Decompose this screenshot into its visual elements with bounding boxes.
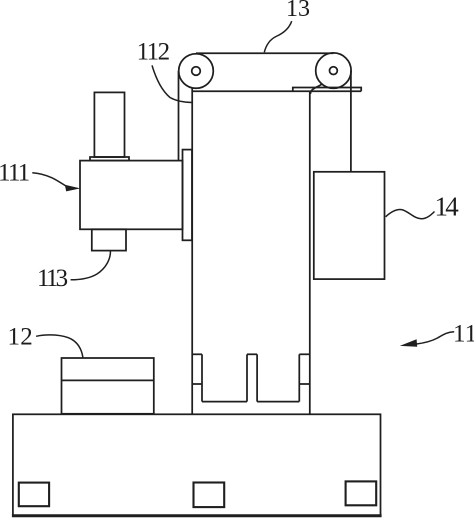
belt left strap [178,71,180,160]
svg-text:111: 111 [0,160,29,187]
leader 11 [417,332,455,344]
column left edge [191,88,193,414]
column right edge [309,91,311,414]
leader 14 [386,210,435,219]
slot bottom right segment [257,401,299,403]
left slot inner wall [201,354,203,401]
center prong right wall [256,354,258,401]
leader 113 [71,251,111,280]
svg-text:14: 14 [435,192,460,222]
pulley right hub [330,67,338,75]
right slot tab top [299,353,310,355]
base foot right [346,481,377,505]
arrowhead 11 [400,339,417,346]
base 11 body [13,414,381,515]
pulley left outer [179,54,214,89]
belt curve under right pulley [310,84,322,94]
base bottom thick edge [12,514,382,517]
belt right strap [350,71,352,172]
left slot tab bottom [192,383,202,385]
box 113 [92,229,126,250]
leader 12 [36,335,83,358]
svg-text:112: 112 [137,38,170,65]
base foot left [19,483,49,507]
leader 112 [152,65,193,102]
block 111 [80,161,183,230]
slot bottom left segment [202,401,247,403]
belt 13 top run [196,52,333,54]
svg-text:13: 13 [286,0,310,22]
svg-text:12: 12 [8,323,34,350]
box 14 [314,172,385,279]
column top edge plus bar bottom [192,90,361,92]
tower flange [90,157,129,161]
center prong left wall [246,354,248,401]
right slot inner wall [298,354,300,401]
top bar plate [293,88,361,92]
box 12 lid line [62,379,154,381]
arrowhead 111 [65,185,81,192]
pulley left hub [192,67,201,76]
base foot middle [194,483,225,508]
side plate on column [183,150,193,241]
left slot tab top [192,353,202,355]
svg-text:113: 113 [37,265,68,292]
leader 111 [32,173,65,186]
right slot tab bottom [299,383,310,385]
leader 13 [264,21,291,52]
pulley right outer [316,53,351,88]
svg-text:11: 11 [453,321,474,348]
box 12 [62,358,154,414]
center prong top [247,353,257,355]
tower on block 111 [94,92,124,157]
